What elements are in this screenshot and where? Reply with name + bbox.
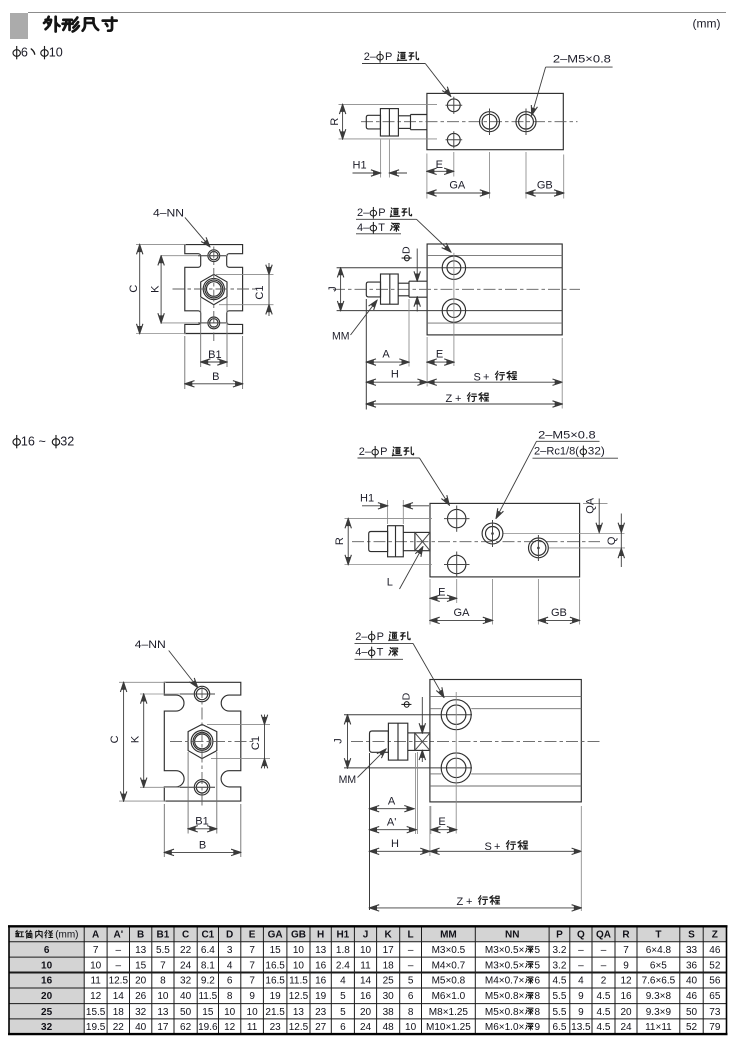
figure: side view (phi6-phi10) [327,207,580,410]
dimension QA [583,502,608,504]
svg-text:–: – [601,945,607,956]
svg-text:B: B [199,839,206,851]
svg-text:–: – [116,945,122,956]
svg-text:32: 32 [180,976,192,987]
svg-text:23: 23 [270,1022,282,1033]
svg-text:K: K [150,285,162,293]
rod nut [381,274,399,304]
bottom mounting hole NN [194,780,209,795]
svg-text:GB: GB [551,607,567,619]
svg-text:23: 23 [315,1007,327,1018]
svg-text:MM: MM [339,774,357,786]
center line [352,541,600,543]
section label: dia 16 to dia 32 [13,435,20,448]
rod [403,531,415,533]
svg-text:A: A [388,796,396,808]
svg-text:10: 10 [293,960,305,971]
svg-text:56: 56 [709,976,721,987]
center line [333,288,580,290]
svg-text:GA: GA [454,607,471,619]
dimension Z + stroke [561,338,563,409]
figure: side view (phi16-phi32) [333,631,602,911]
svg-text:C: C [128,285,140,293]
svg-text:40: 40 [686,976,698,987]
svg-text:9: 9 [249,991,255,1002]
svg-text:20: 20 [135,976,147,987]
dimension GA [492,579,494,625]
svg-text:6: 6 [535,976,541,987]
svg-text:K: K [385,930,393,941]
dimension table [9,926,727,942]
crosshairs [201,686,203,806]
rod wrench flats detail [415,532,430,550]
dimension H1 [387,500,389,524]
svg-text:16.5: 16.5 [265,976,285,987]
svg-text:26: 26 [135,991,147,1002]
svg-text:32: 32 [60,435,74,449]
svg-text:6.4: 6.4 [201,945,215,956]
svg-text:5.5: 5.5 [156,945,170,956]
svg-text:52: 52 [709,960,721,971]
svg-text:25: 25 [383,976,395,987]
svg-text:GA: GA [449,179,466,191]
center rod hole circles [203,278,224,299]
svg-text:8.1: 8.1 [201,960,215,971]
svg-text:8: 8 [408,1007,414,1018]
svg-text:9: 9 [535,1022,541,1033]
dimension B1 [200,298,202,367]
cylinder body (top view) [430,503,580,577]
svg-text:2.4: 2.4 [336,960,350,971]
svg-text:25: 25 [41,1007,53,1018]
svg-text:E: E [436,159,443,171]
svg-text:20: 20 [41,991,53,1002]
title: outline dimensions (Chinese) [44,17,60,32]
svg-text:9.3×8: 9.3×8 [646,991,672,1002]
svg-text:T: T [378,222,385,234]
figure: front view (phi16-phi32) [109,639,270,857]
svg-text:(mm): (mm) [693,17,721,31]
svg-text:11×11: 11×11 [645,1022,672,1033]
dimension Z + stroke [580,806,582,911]
svg-text:10: 10 [405,1022,417,1033]
svg-text:M5×0.8: M5×0.8 [432,976,466,987]
svg-text:6: 6 [340,1022,346,1033]
dimension K [143,694,145,787]
svg-text:P: P [380,446,387,458]
svg-text:R: R [329,118,341,126]
dimension J [347,715,349,768]
svg-text:32: 32 [135,1007,147,1018]
svg-text:R: R [334,537,346,545]
lower port counterbore [442,299,465,322]
svg-text:6: 6 [408,991,414,1002]
svg-text:B: B [212,371,219,383]
svg-text:B1: B1 [157,930,170,941]
svg-text:11: 11 [360,960,371,971]
svg-text:12.5: 12.5 [289,1022,309,1033]
svg-text:4.5: 4.5 [597,1022,611,1033]
dimension GA [489,152,491,199]
svg-text:+: + [483,372,489,384]
svg-text:A: A [92,930,99,941]
port M5 no.1 [480,112,500,132]
cylinder body (side view) [427,244,562,335]
svg-text:MM: MM [440,930,457,941]
dimension B [184,336,186,389]
dimension E [430,806,432,834]
svg-text:R: R [622,930,630,941]
dimension R [339,103,438,105]
cylinder body (side view) [430,680,581,802]
svg-text:A': A' [387,816,396,828]
upper port counterbore [442,256,465,279]
svg-text:8: 8 [160,976,166,987]
svg-text:62: 62 [180,1022,192,1033]
svg-text:8: 8 [535,991,541,1002]
figure: front view (phi6-phi10) [128,208,274,390]
svg-text:7: 7 [623,945,629,956]
svg-text:2–: 2– [364,51,377,63]
vertical crosshair [455,692,457,834]
dimension B [163,804,165,857]
svg-text:10: 10 [41,960,53,971]
svg-text:5.5: 5.5 [552,991,566,1002]
svg-text:E: E [438,586,445,598]
dimension E [426,337,428,387]
rod thread tip [370,731,389,752]
svg-text:+: + [466,896,472,908]
svg-text:A': A' [113,930,123,941]
svg-text:P: P [377,631,384,643]
svg-text:16: 16 [21,435,35,449]
svg-text:5.5: 5.5 [552,1007,566,1018]
section label phi6 phi10 [13,46,20,59]
svg-text:12: 12 [620,976,632,987]
svg-text:16: 16 [315,960,327,971]
svg-text:Q: Q [577,930,585,941]
svg-text:11.5: 11.5 [198,991,217,1002]
svg-text:2–: 2– [359,446,372,458]
crosshair lines [213,247,215,342]
svg-text:18: 18 [383,960,395,971]
svg-text:11.5: 11.5 [289,976,308,987]
svg-text:H: H [391,838,399,850]
svg-text:L: L [408,930,414,941]
svg-text:E: E [438,816,445,828]
dimension A-prime [417,752,419,834]
svg-text:H: H [391,369,399,381]
svg-text:79: 79 [709,1022,721,1033]
svg-text:10: 10 [49,46,63,60]
svg-text:7: 7 [249,976,255,987]
dimension K [160,256,162,323]
svg-text:5: 5 [535,945,541,956]
svg-text:8: 8 [535,1007,541,1018]
svg-text:E: E [249,930,256,941]
svg-text:–: – [408,960,414,971]
svg-text:20: 20 [620,1007,632,1018]
vertical crosshair [453,253,455,366]
svg-text:J: J [363,930,369,941]
port passage lines / J extension [344,714,472,716]
svg-text:C1: C1 [201,930,214,941]
rod wrench flats detail [415,733,430,751]
svg-text:2–: 2– [357,207,370,219]
svg-text:GB: GB [537,179,553,191]
svg-text:M4×0.7×: M4×0.7× [485,976,525,987]
svg-text:12.5: 12.5 [289,991,309,1002]
svg-text:2–: 2– [355,631,368,643]
svg-text:M8×1.25: M8×1.25 [429,1007,469,1018]
svg-text:4.5: 4.5 [597,991,611,1002]
svg-text:18: 18 [113,1007,125,1018]
dimension B1 [187,752,189,834]
body outline with round-end mounting slots [164,682,241,801]
hole P2 [447,133,460,146]
svg-text:C1: C1 [250,736,262,750]
svg-text:1.8: 1.8 [336,945,350,956]
svg-text:13: 13 [293,1007,305,1018]
svg-text:24: 24 [620,1022,632,1033]
svg-text:D: D [400,692,412,700]
svg-text:24: 24 [180,960,192,971]
rod [408,732,415,734]
svg-text:MM: MM [332,331,350,343]
dimension GB [525,152,527,199]
lower port counterbore [441,753,471,783]
svg-text:17: 17 [383,945,395,956]
svg-text:H1: H1 [353,160,367,172]
svg-text:P: P [556,930,563,941]
svg-text:46: 46 [709,945,721,956]
svg-text:B1: B1 [195,815,208,827]
svg-text:10: 10 [157,991,169,1002]
hole P1 [447,99,460,112]
svg-text:6: 6 [227,976,233,987]
top mounting hole NN [194,686,209,701]
svg-text:15.5: 15.5 [86,1007,106,1018]
svg-text:6×4.8: 6×4.8 [646,945,672,956]
body outline with mounting notches [185,245,243,334]
svg-text:9.3×9: 9.3×9 [646,1007,672,1018]
port M5 [482,523,503,544]
svg-text:14: 14 [360,976,372,987]
svg-text:NN: NN [505,930,519,941]
dimension phiD [421,697,423,733]
svg-text:4: 4 [578,976,584,987]
svg-text:19.5: 19.5 [86,1022,106,1033]
svg-text:36: 36 [686,960,698,971]
svg-text:9: 9 [578,991,584,1002]
svg-text:P: P [385,51,392,63]
svg-text:9.2: 9.2 [201,976,215,987]
svg-text:3: 3 [227,945,233,956]
svg-text:9: 9 [623,960,629,971]
svg-text:(mm): (mm) [55,930,78,941]
svg-text:10: 10 [293,945,305,956]
svg-text:14: 14 [113,991,125,1002]
top mounting hole NN [208,250,220,262]
svg-text:M5×0.8×: M5×0.8× [485,1007,525,1018]
svg-text:J: J [327,286,339,292]
svg-text:11: 11 [247,1022,258,1033]
svg-text:16: 16 [620,991,632,1002]
svg-text:S: S [688,930,695,941]
dimension C [136,244,186,246]
svg-text:H: H [317,930,324,941]
svg-text:50: 50 [686,1007,698,1018]
svg-text:4–: 4– [357,222,370,234]
rod thread tip [369,532,388,552]
svg-text:E: E [436,349,443,361]
svg-text:4: 4 [227,960,233,971]
svg-text:L: L [387,577,393,589]
svg-text:40: 40 [135,1022,147,1033]
svg-text:22: 22 [113,1022,125,1033]
header rule [28,12,726,13]
svg-text:19: 19 [270,991,282,1002]
center line [361,121,578,123]
svg-text:–: – [578,960,584,971]
svg-text:T: T [655,930,661,941]
svg-text:H1: H1 [336,930,349,941]
upper port counterbore [441,700,471,730]
svg-text:+: + [455,393,461,405]
svg-text:11: 11 [90,976,101,987]
svg-text:16: 16 [360,991,372,1002]
dimension C1 [216,273,274,275]
svg-text:4–NN: 4–NN [135,639,166,651]
svg-text:B: B [137,930,144,941]
svg-text:7: 7 [249,960,255,971]
svg-text:15: 15 [270,945,282,956]
center hex boss [201,274,227,304]
svg-text:13: 13 [315,945,327,956]
svg-text:–: – [578,945,584,956]
figure: top view body (phi6-phi10) [329,51,613,199]
dimension H1 [380,140,382,178]
svg-text:M10×1.25: M10×1.25 [426,1022,471,1033]
svg-text:40: 40 [180,991,192,1002]
rod [398,115,410,117]
svg-text:32): 32) [588,446,605,458]
svg-text:6×5: 6×5 [650,960,667,971]
dimension R [345,518,433,520]
svg-text:12.5: 12.5 [109,976,129,987]
svg-text:2–Rc1/8(: 2–Rc1/8( [534,446,579,458]
svg-text:QA: QA [596,930,611,941]
svg-text:33: 33 [686,945,698,956]
svg-text:10: 10 [247,1007,259,1018]
svg-text:M3×0.5×: M3×0.5× [485,945,525,956]
svg-text:–: – [601,960,607,971]
bottom mounting hole NN [208,317,220,329]
rod nut [388,526,404,557]
svg-text:~: ~ [39,435,46,449]
svg-text:M3×0.5: M3×0.5 [432,945,466,956]
svg-text:4.5: 4.5 [597,1007,611,1018]
svg-text:Z: Z [457,896,464,908]
svg-text:10: 10 [90,960,102,971]
svg-text:27: 27 [315,1022,327,1033]
dimension C [119,681,166,683]
dimension A [365,299,367,410]
svg-text:–: – [408,945,414,956]
dimension phiD [416,249,418,282]
svg-text:50: 50 [180,1007,192,1018]
svg-text:D: D [226,930,233,941]
port Rc1/8 [529,538,549,558]
svg-text:T: T [377,647,384,659]
svg-text:19: 19 [315,991,327,1002]
svg-text:M6×1.0: M6×1.0 [432,991,466,1002]
cylinder body (top view) [427,93,563,149]
svg-text:12: 12 [90,991,102,1002]
hole P1 [448,509,466,527]
svg-text:15: 15 [202,1007,214,1018]
svg-text:7: 7 [93,945,99,956]
piston rod thread tip [366,115,380,129]
rod thread tip [366,282,380,297]
svg-text:J: J [333,738,345,744]
svg-text:S: S [474,372,481,384]
dimension J [340,268,342,311]
svg-text:65: 65 [709,991,721,1002]
svg-text:48: 48 [383,1022,395,1033]
center line [351,740,602,742]
svg-text:4–NN: 4–NN [153,208,184,220]
svg-text:4–: 4– [355,647,368,659]
svg-text:6.5: 6.5 [552,1022,566,1033]
svg-text:16: 16 [41,976,53,987]
svg-text:13: 13 [135,945,147,956]
svg-text:C: C [109,735,121,743]
svg-text:24: 24 [360,1022,372,1033]
svg-text:13.5: 13.5 [571,1022,591,1033]
svg-text:16: 16 [315,976,327,987]
dimension C1 [207,723,270,725]
svg-text:20: 20 [360,1007,372,1018]
svg-text:5: 5 [340,1007,346,1018]
rod nut [380,109,398,136]
svg-text:12: 12 [224,1022,236,1033]
svg-text:B1: B1 [208,349,221,361]
svg-text:19.6: 19.6 [198,1022,218,1033]
svg-text:7: 7 [160,960,166,971]
svg-text:D: D [401,246,413,254]
svg-text:2: 2 [601,976,607,987]
dimension A [369,753,371,910]
svg-text:10: 10 [224,1007,236,1018]
svg-text:3.2: 3.2 [552,960,566,971]
svg-text:46: 46 [686,991,698,1002]
svg-text:21.5: 21.5 [265,1007,285,1018]
dimension H [366,381,427,383]
svg-text:5: 5 [340,991,346,1002]
svg-text:32: 32 [41,1022,53,1033]
svg-text:H1: H1 [360,492,374,504]
svg-text:6: 6 [44,945,50,956]
dimension S + stroke [427,381,562,383]
dimension S + stroke [430,850,581,852]
title block square [10,13,28,39]
svg-text:A: A [382,349,390,361]
hole P2 [448,555,466,573]
figure: top view body (phi16-phi32) [334,430,625,625]
svg-text:P: P [378,207,385,219]
svg-text:15: 15 [135,960,147,971]
